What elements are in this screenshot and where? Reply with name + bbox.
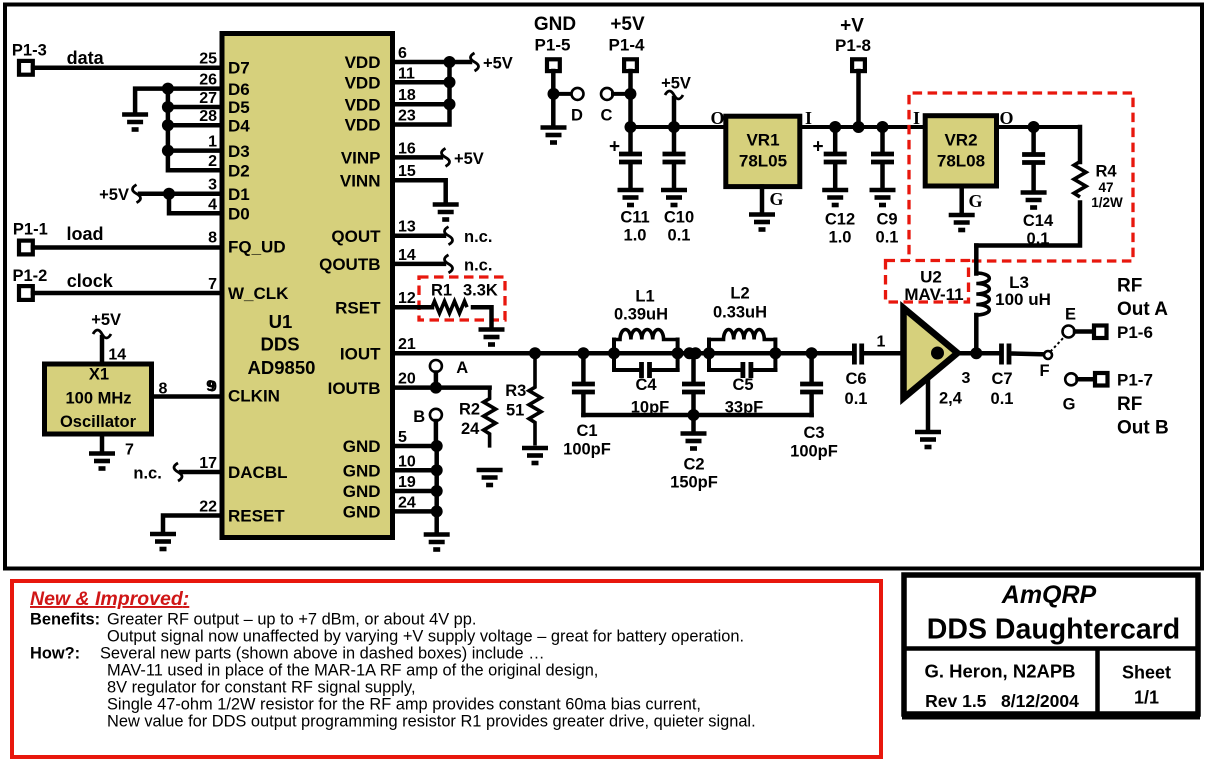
svg-text:Rev 1.5 8/12/2004: Rev 1.5 8/12/2004 xyxy=(925,691,1079,711)
svg-text:E: E xyxy=(1065,306,1076,324)
svg-text:F: F xyxy=(1039,362,1049,380)
wire VDD pin 6 xyxy=(393,60,470,65)
jumper circle D xyxy=(572,88,584,100)
svg-text:IOUTB: IOUTB xyxy=(328,379,381,398)
svg-text:Single 47-ohm 1/2W resistor fo: Single 47-ohm 1/2W resistor for the RF a… xyxy=(107,696,701,714)
svg-text:C11: C11 xyxy=(620,209,649,227)
svg-text:10: 10 xyxy=(398,453,416,470)
wire R1 to ground xyxy=(473,307,492,327)
svg-text:D2: D2 xyxy=(228,161,250,180)
svg-text:CLKIN: CLKIN xyxy=(228,387,280,406)
svg-text:DDS: DDS xyxy=(260,334,299,355)
resistor R2 xyxy=(484,388,496,448)
svg-text:1.0: 1.0 xyxy=(624,227,647,245)
junction dot C2b xyxy=(690,347,702,359)
squiggle +5V D1 xyxy=(133,185,141,203)
capacitor C9 xyxy=(871,127,894,188)
svg-text:G. Heron, N2APB: G. Heron, N2APB xyxy=(924,661,1075,682)
svg-text:100 MHz: 100 MHz xyxy=(65,390,131,408)
svg-text:n.c.: n.c. xyxy=(464,228,492,246)
junction dot L1 left xyxy=(608,347,620,359)
svg-text:C14: C14 xyxy=(1023,212,1054,230)
svg-text:P1-5: P1-5 xyxy=(535,36,571,55)
wire P1-5 to ground xyxy=(551,71,556,125)
connector P1-1 square xyxy=(19,241,33,255)
ground P1-5 xyxy=(541,128,567,143)
VR2 output wire xyxy=(997,125,1081,129)
ground C2 xyxy=(681,434,707,449)
svg-text:Out B: Out B xyxy=(1117,418,1169,439)
capacitor C1 xyxy=(581,353,586,380)
svg-text:C5: C5 xyxy=(732,376,753,394)
junction dot L1 right xyxy=(672,347,684,359)
svg-text:C4: C4 xyxy=(635,376,657,394)
svg-text:GND: GND xyxy=(534,14,576,35)
capacitor C7 xyxy=(1002,344,1045,365)
svg-text:Oscillator: Oscillator xyxy=(60,413,137,431)
svg-text:2: 2 xyxy=(208,153,217,170)
svg-text:27: 27 xyxy=(199,90,217,107)
jumper circle G xyxy=(1065,373,1077,385)
svg-text:I: I xyxy=(913,108,920,128)
wire RSET pin 12 xyxy=(393,305,432,310)
svg-text:47: 47 xyxy=(1098,180,1113,195)
svg-text:P1-6: P1-6 xyxy=(1117,323,1153,342)
svg-text:1.0: 1.0 xyxy=(829,229,852,247)
wire D4 pin 28 xyxy=(168,123,222,128)
svg-text:23: 23 xyxy=(398,108,416,125)
+V rail wire xyxy=(802,125,923,129)
svg-text:4: 4 xyxy=(208,196,217,213)
wire QOUT pin 13 xyxy=(393,233,444,238)
svg-text:0.1: 0.1 xyxy=(991,390,1014,408)
wire DACBL pin 17 xyxy=(181,470,222,475)
svg-text:P1-8: P1-8 xyxy=(835,36,871,55)
wire E to P1-6 xyxy=(1075,329,1093,334)
ground C9 xyxy=(870,190,896,205)
junction dot D5 xyxy=(162,101,174,113)
svg-text:5: 5 xyxy=(398,429,407,446)
svg-text:RSET: RSET xyxy=(335,298,381,317)
wire P1-3 to D7 pin 25 xyxy=(33,66,222,71)
svg-text:8: 8 xyxy=(208,230,217,247)
resistor R4 xyxy=(1074,162,1086,198)
ground GND bus xyxy=(424,535,450,550)
junction dot C3 xyxy=(806,347,818,359)
svg-text:Several new parts (shown above: Several new parts (shown above in dashed… xyxy=(100,645,545,663)
svg-text:R1: R1 xyxy=(431,282,452,300)
svg-text:78L08: 78L08 xyxy=(937,152,985,171)
inductor L2 xyxy=(709,329,775,339)
wire R4 to L3 jog xyxy=(976,203,1080,246)
svg-text:25: 25 xyxy=(199,50,217,67)
ground R2 xyxy=(477,470,503,485)
svg-text:P1-4: P1-4 xyxy=(609,36,645,55)
svg-text:C2: C2 xyxy=(683,456,704,474)
svg-text:1: 1 xyxy=(208,134,217,151)
svg-text:+5V: +5V xyxy=(661,75,691,93)
squiggle +5V VDD xyxy=(471,53,479,71)
wire GND pin 10 xyxy=(393,468,437,473)
wire VR2 to ground xyxy=(959,186,964,213)
wire D3 pin 1 xyxy=(168,148,222,153)
connector P1-8 square xyxy=(852,59,865,71)
ground VINN xyxy=(433,205,459,220)
jumper circle B xyxy=(430,409,442,421)
connector P1-7 square xyxy=(1095,373,1108,386)
svg-text:Greater RF output – up to +7 d: Greater RF output – up to +7 dBm, or abo… xyxy=(107,611,476,629)
connector P1-6 square xyxy=(1094,326,1107,339)
junction dot C12 xyxy=(829,121,841,133)
svg-text:VR1: VR1 xyxy=(746,131,779,150)
svg-text:21: 21 xyxy=(398,336,416,353)
connector P1-2 square xyxy=(19,286,33,300)
wire U2 ground stub xyxy=(926,378,931,430)
tank1 left riser xyxy=(612,340,616,371)
wire +5V to rail at C10 xyxy=(672,98,677,127)
junction dot L2 right xyxy=(769,347,781,359)
svg-text:G: G xyxy=(1063,396,1076,414)
svg-text:New & Improved:: New & Improved: xyxy=(30,588,189,610)
wire QOUTB pin 14 xyxy=(393,262,444,267)
red dashed box around R1 xyxy=(419,277,505,320)
svg-text:VR2: VR2 xyxy=(944,131,977,150)
svg-text:VINN: VINN xyxy=(340,171,381,190)
svg-text:Out A: Out A xyxy=(1117,299,1168,320)
svg-text:R3: R3 xyxy=(505,382,526,400)
svg-text:VDD: VDD xyxy=(345,95,381,114)
svg-text:clock: clock xyxy=(67,271,114,291)
svg-text:P1-2: P1-2 xyxy=(13,267,48,285)
wire VR1 to ground xyxy=(760,187,765,213)
svg-text:150pF: 150pF xyxy=(670,474,718,492)
wire B to ground bus xyxy=(434,421,439,446)
tank1 right riser xyxy=(676,340,680,371)
junction dot P1-4 xyxy=(625,88,637,100)
svg-text:n.c.: n.c. xyxy=(464,256,492,274)
svg-text:O: O xyxy=(710,108,724,128)
wire VINN pin 15 to ground xyxy=(393,180,446,202)
svg-text:C10: C10 xyxy=(664,209,694,227)
svg-text:DDS Daughtercard: DDS Daughtercard xyxy=(927,614,1180,646)
ground VR1 xyxy=(749,215,775,230)
wire RESET pin 22 to ground xyxy=(163,516,222,532)
tank2 left riser xyxy=(707,340,711,371)
wire U2 output xyxy=(956,351,1000,356)
ground R3 xyxy=(522,448,548,463)
svg-text:0.1: 0.1 xyxy=(876,229,899,247)
svg-text:AmQRP: AmQRP xyxy=(1001,581,1097,609)
squiggle DACBL xyxy=(174,463,182,481)
svg-text:51: 51 xyxy=(506,402,524,420)
wire P1-1 load to FQ_UD pin 8 xyxy=(33,245,222,250)
wire L3 top xyxy=(974,246,979,274)
junction dot C10 xyxy=(668,121,680,133)
svg-text:VDD: VDD xyxy=(345,74,381,93)
ground U2 xyxy=(915,432,941,447)
svg-text:Sheet: Sheet xyxy=(1122,663,1171,683)
squiggle +5V C10 xyxy=(665,91,683,99)
junction dot GND19 xyxy=(431,485,443,497)
wire GND pin 19 xyxy=(393,489,437,494)
capacitor C4 xyxy=(614,362,678,378)
svg-text:26: 26 xyxy=(199,72,217,89)
svg-text:78L05: 78L05 xyxy=(739,152,787,171)
svg-text:MAV-11: MAV-11 xyxy=(904,285,963,304)
capacitor C12 xyxy=(824,127,847,188)
wire D6 pin 26 xyxy=(168,86,222,91)
capacitor C6 xyxy=(854,344,903,365)
jumper circle C xyxy=(601,88,613,100)
resistor R1 zigzag xyxy=(432,301,467,313)
junction dot P1-5 xyxy=(548,88,560,100)
svg-text:C3: C3 xyxy=(803,424,824,442)
svg-text:1: 1 xyxy=(877,334,886,351)
ground C10 xyxy=(661,190,687,205)
svg-text:13: 13 xyxy=(398,219,416,236)
oscillator X1 body xyxy=(45,364,152,434)
tank2 right riser xyxy=(773,340,777,371)
connector P1-5 square xyxy=(547,59,560,71)
svg-text:QOUT: QOUT xyxy=(331,227,381,246)
ground VR2 xyxy=(949,215,975,230)
svg-text:14: 14 xyxy=(108,347,126,364)
svg-text:24: 24 xyxy=(461,420,480,438)
capacitor C11 xyxy=(619,127,642,188)
ground data bus xyxy=(122,115,148,130)
svg-text:U2: U2 xyxy=(920,268,942,287)
wire data bus vertical xyxy=(168,89,222,171)
svg-text:L2: L2 xyxy=(730,285,749,303)
svg-text:100pF: 100pF xyxy=(563,441,611,459)
svg-text:15: 15 xyxy=(398,163,416,180)
wire VR2 out down to R4 xyxy=(1078,127,1083,162)
junction dot GND24 xyxy=(431,505,443,517)
ground C14 xyxy=(1021,193,1047,208)
svg-text:1/1: 1/1 xyxy=(1134,688,1159,708)
svg-text:QOUTB: QOUTB xyxy=(319,255,380,274)
wire VINP pin 16 xyxy=(393,155,441,160)
svg-text:RF: RF xyxy=(1117,394,1142,415)
svg-text:20: 20 xyxy=(398,371,416,388)
squiggle +5V VINP xyxy=(442,148,450,166)
filter ground bus wire xyxy=(583,413,811,418)
svg-text:How?:: How?: xyxy=(30,645,80,663)
svg-text:IOUT: IOUT xyxy=(340,344,381,363)
junction dot VDD 6 xyxy=(444,56,456,68)
wire X1 to ground xyxy=(100,434,105,451)
svg-text:+5V: +5V xyxy=(454,150,484,168)
connector P1-3 square xyxy=(19,61,33,75)
svg-text:0.1: 0.1 xyxy=(668,227,691,245)
capacitor C3 xyxy=(800,353,823,415)
wire +5V to X1 pin 14 xyxy=(100,337,105,364)
wire X1 to CLKIN pin 9 xyxy=(154,394,222,399)
junction dot R3 xyxy=(529,347,541,359)
svg-text:data: data xyxy=(67,48,105,68)
wire D5 pin 27 xyxy=(168,105,222,110)
svg-text:0.1: 0.1 xyxy=(845,390,868,408)
junction dot P1-8 xyxy=(853,121,865,133)
wire VDD pin 23 xyxy=(393,62,450,125)
svg-text:11: 11 xyxy=(398,65,415,82)
ground R1 xyxy=(479,330,505,345)
svg-text:n.c.: n.c. xyxy=(133,465,161,483)
ground RESET xyxy=(150,534,176,549)
svg-text:GND: GND xyxy=(343,437,381,456)
svg-text:P1-3: P1-3 xyxy=(12,42,47,60)
svg-text:GND: GND xyxy=(343,503,381,522)
wire IOUTB pin 20 xyxy=(393,385,490,390)
capacitor C10 xyxy=(663,127,686,188)
junction dot C9 xyxy=(877,121,889,133)
squiggle n.c. QOUT xyxy=(445,227,453,245)
svg-text:C7: C7 xyxy=(991,370,1012,388)
svg-text:G: G xyxy=(769,189,783,209)
svg-text:8V regulator for constant RF s: 8V regulator for constant RF signal supp… xyxy=(107,679,416,697)
regulator VR1 body xyxy=(726,116,800,186)
wire P1-2 clock to W_CLK pin 7 xyxy=(33,291,222,296)
junction dot IOUTB xyxy=(430,382,442,394)
svg-text:+5V: +5V xyxy=(610,14,645,35)
svg-text:1/2W: 1/2W xyxy=(1091,195,1123,210)
svg-text:W_CLK: W_CLK xyxy=(228,284,289,303)
svg-text:9: 9 xyxy=(206,378,215,395)
svg-text:7: 7 xyxy=(125,442,134,459)
svg-text:FQ_UD: FQ_UD xyxy=(228,238,286,257)
wire G to P1-7 xyxy=(1078,377,1095,382)
resistor R3 xyxy=(529,353,541,445)
svg-text:GND: GND xyxy=(343,482,381,501)
svg-text:GND: GND xyxy=(343,462,381,481)
capacitor C14 xyxy=(1022,127,1045,190)
svg-text:0.33uH: 0.33uH xyxy=(713,304,767,322)
junction dot C2a xyxy=(684,347,696,359)
junction dot D4 xyxy=(162,119,174,131)
svg-text:17: 17 xyxy=(199,455,217,472)
svg-text:RF: RF xyxy=(1117,276,1142,297)
svg-text:+: + xyxy=(609,137,620,158)
svg-text:D3: D3 xyxy=(228,142,250,161)
schematic border frame xyxy=(5,5,1202,569)
svg-text:C12: C12 xyxy=(825,211,855,229)
svg-text:+5V: +5V xyxy=(99,186,129,204)
switch pole circle F xyxy=(1044,351,1052,359)
svg-text:22: 22 xyxy=(199,499,217,516)
amplifier U2 MAV-11 triangle xyxy=(904,308,958,398)
squiggle n.c. QOUTB xyxy=(445,255,453,273)
svg-text:D5: D5 xyxy=(228,98,250,117)
svg-text:18: 18 xyxy=(398,87,416,104)
svg-text:12: 12 xyxy=(398,290,416,307)
wire L3 bottom xyxy=(974,315,979,353)
svg-text:P1-7: P1-7 xyxy=(1117,371,1153,390)
red dashed box U2 xyxy=(886,261,969,303)
inductor L3 xyxy=(976,273,989,315)
svg-text:load: load xyxy=(67,224,104,244)
junction dot U2 output xyxy=(970,347,982,359)
IC U1 DDS AD9850 body xyxy=(222,34,393,538)
svg-text:14: 14 xyxy=(398,247,416,264)
svg-text:G: G xyxy=(968,191,982,211)
svg-text:+5V: +5V xyxy=(91,311,121,329)
svg-text:D1: D1 xyxy=(228,185,250,204)
switch dashed throw xyxy=(1051,335,1067,352)
svg-text:B: B xyxy=(413,408,425,426)
squiggle +5V X1 xyxy=(93,330,111,338)
svg-text:RESET: RESET xyxy=(228,507,285,526)
svg-text:R2: R2 xyxy=(459,401,480,419)
wire P1-4 down to rail xyxy=(628,71,633,127)
junction dot D3 xyxy=(162,145,174,157)
regulator VR2 body xyxy=(925,116,996,186)
svg-text:C1: C1 xyxy=(576,422,597,440)
inductor L1 xyxy=(614,329,678,339)
svg-text:0.39uH: 0.39uH xyxy=(614,306,668,324)
jumper circle A xyxy=(430,360,442,372)
svg-text:Benefits:: Benefits: xyxy=(30,611,100,629)
ground X1 xyxy=(89,454,115,469)
connector P1-4 square xyxy=(624,59,637,71)
svg-text:+: + xyxy=(813,137,824,158)
wire D1 to D0 pin 4 xyxy=(169,194,222,214)
svg-text:U1: U1 xyxy=(269,311,293,332)
title block horizontal divider xyxy=(902,646,1200,651)
wire stub to D xyxy=(557,92,572,96)
svg-text:+5V: +5V xyxy=(483,55,513,73)
svg-text:24: 24 xyxy=(398,494,416,511)
wire GND pin 24 xyxy=(393,509,437,514)
junction dot D6 xyxy=(162,83,174,95)
junction dot L2 left xyxy=(703,347,715,359)
svg-text:2,4: 2,4 xyxy=(939,390,963,408)
svg-text:19: 19 xyxy=(398,474,416,491)
svg-text:A: A xyxy=(456,359,468,377)
junction dot C1 xyxy=(577,347,589,359)
svg-text:100 uH: 100 uH xyxy=(995,290,1051,309)
svg-text:P1-1: P1-1 xyxy=(13,221,48,239)
svg-text:D4: D4 xyxy=(228,116,250,135)
svg-text:R4: R4 xyxy=(1095,163,1117,181)
svg-text:28: 28 xyxy=(199,108,217,125)
title block border xyxy=(904,575,1198,714)
wire IOUT pin 21 main line xyxy=(393,351,852,356)
wire GND bus pins 5 10 19 24 xyxy=(393,446,437,531)
svg-text:MAV-11 used in place of the MA: MAV-11 used in place of the MAR-1A RF am… xyxy=(107,662,598,680)
svg-text:C6: C6 xyxy=(845,370,866,388)
svg-text:Output signal now unaffected b: Output signal now unaffected by varying … xyxy=(107,628,744,646)
svg-text:VDD: VDD xyxy=(345,116,381,135)
svg-text:C: C xyxy=(601,107,613,125)
capacitor C5 xyxy=(709,362,775,378)
notes red box xyxy=(12,581,881,757)
svg-text:VDD: VDD xyxy=(345,53,381,72)
title block vertical divider xyxy=(1095,649,1100,715)
ground C11 xyxy=(618,190,644,205)
wire data bus ground stub xyxy=(135,89,168,112)
svg-text:D0: D0 xyxy=(228,205,250,224)
wire A to IOUTB xyxy=(434,373,439,388)
svg-text:6: 6 xyxy=(398,45,407,62)
junction dot C2 bus xyxy=(688,409,700,421)
wire P1-8 to rail xyxy=(856,71,861,127)
svg-text:DACBL: DACBL xyxy=(228,463,288,482)
junction dot VDD 18 xyxy=(444,98,456,110)
svg-text:D: D xyxy=(571,107,583,125)
junction dot GND10 xyxy=(431,464,443,476)
svg-text:New value for DDS output progr: New value for DDS output programming res… xyxy=(107,713,756,731)
title block bottom border thick xyxy=(902,714,1200,720)
